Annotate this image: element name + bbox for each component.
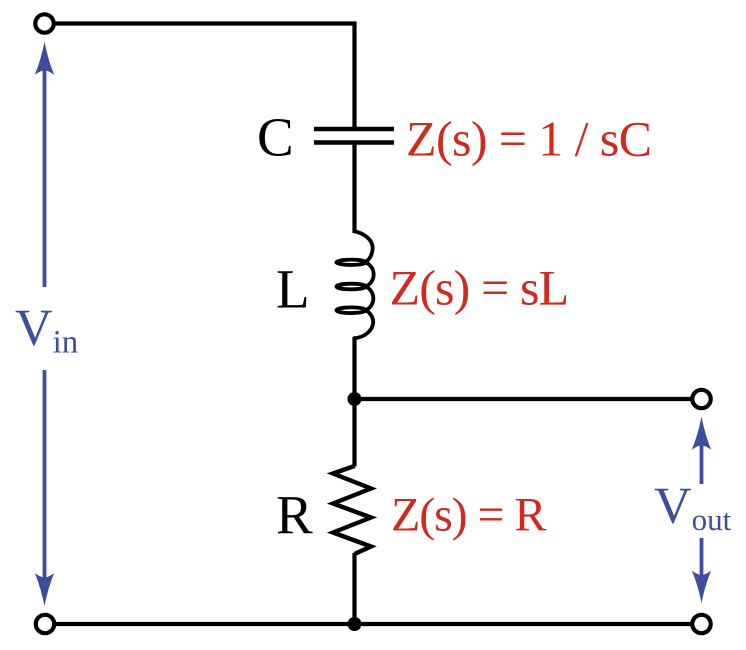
- svg-text:R: R: [276, 484, 313, 545]
- node A junction dot: [348, 392, 362, 406]
- terminal Vin+ (top left open circle): [35, 14, 53, 32]
- node B junction dot (bottom): [348, 617, 362, 631]
- svg-text:C: C: [257, 107, 294, 168]
- inductor L1 coil: [336, 232, 373, 339]
- svg-text:Vin: Vin: [15, 300, 78, 361]
- svg-text:Z(s) = sL: Z(s) = sL: [390, 260, 569, 316]
- Vout arrow upper shaft: [700, 443, 704, 484]
- Vout arrow lower shaft: [700, 538, 704, 576]
- capacitor C1 top plate: [314, 127, 394, 131]
- wire: inductor to node A: [352, 337, 356, 467]
- Vin arrow lower shaft: [43, 370, 47, 579]
- wire top: from Vin+ terminal right then down to capacitor: [55, 24, 355, 128]
- terminal Vout- (bottom right open circle): [692, 615, 710, 633]
- terminal Vout+ (right open circle): [692, 390, 710, 408]
- resistor R1 zigzag: [333, 466, 371, 554]
- Vin arrow down head: [35, 573, 54, 606]
- Vout arrow down head: [692, 571, 711, 604]
- wire: node A to Vout+ terminal: [355, 397, 692, 401]
- Vin arrow up head: [35, 42, 54, 75]
- wire bottom rail: [56, 622, 691, 626]
- wire: capacitor to inductor: [352, 143, 356, 234]
- Vout arrow up head: [692, 417, 711, 450]
- svg-text:Z(s) = R: Z(s) = R: [391, 489, 546, 542]
- terminal Vin- (bottom left open circle): [36, 615, 54, 633]
- Vin arrow upper shaft: [43, 68, 47, 287]
- wire: resistor to bottom node: [352, 553, 356, 624]
- svg-text:L: L: [276, 259, 310, 320]
- capacitor C1 bottom plate: [314, 140, 394, 144]
- svg-text:Z(s) = 1 / sC: Z(s) = 1 / sC: [406, 110, 651, 166]
- svg-text:Vout: Vout: [654, 478, 732, 538]
